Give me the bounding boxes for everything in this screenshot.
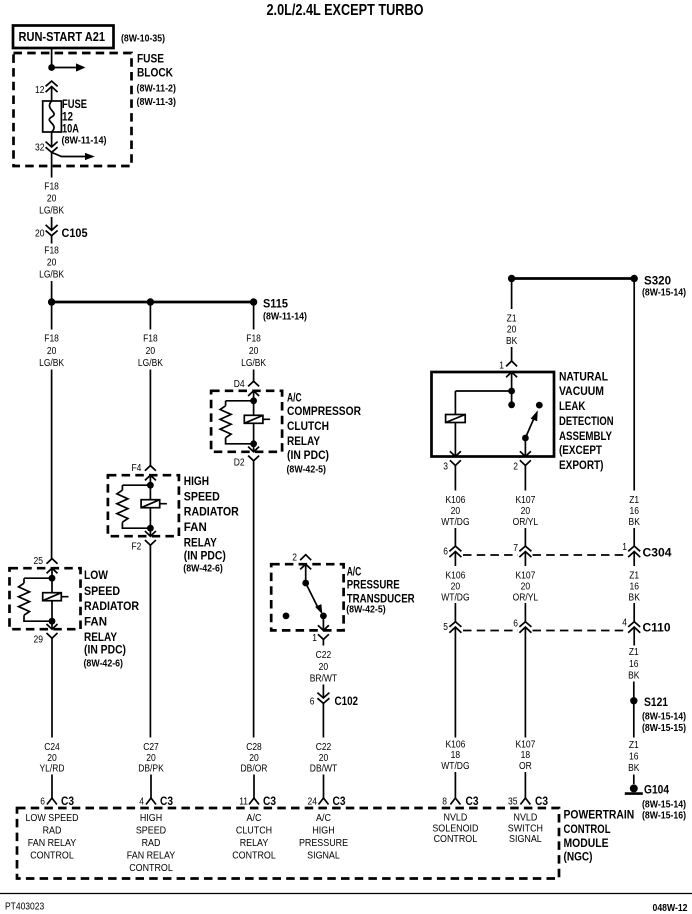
- svg-text:(NGC): (NGC): [564, 849, 593, 863]
- wire K107: [524, 466, 526, 491]
- svg-text:BLOCK: BLOCK: [137, 66, 173, 80]
- svg-text:Z1: Z1: [629, 570, 639, 581]
- svg-text:20: 20: [319, 662, 329, 673]
- svg-text:16: 16: [629, 506, 639, 517]
- ground G104: [630, 784, 638, 792]
- svg-text:A/C: A/C: [287, 390, 302, 404]
- relay K (A/C compressor clutch) pin D4 entry connector: [248, 381, 259, 396]
- wire: [149, 508, 151, 529]
- junction S115: [250, 298, 257, 305]
- node RUN-START A21 feed box: [13, 26, 114, 49]
- node switch contact: [536, 402, 543, 409]
- svg-text:Z1: Z1: [507, 314, 517, 325]
- fuse block enclosure (dashed): [14, 53, 132, 166]
- svg-text:16: 16: [629, 659, 639, 670]
- wire F18 column 2: [149, 302, 151, 330]
- svg-text:(8W-15-14): (8W-15-14): [642, 800, 686, 811]
- svg-text:SPEED: SPEED: [84, 584, 120, 598]
- svg-text:16: 16: [629, 581, 639, 592]
- relay K (low speed radiator fan) pin 29 exit connector: [47, 624, 58, 638]
- junction switch contact (closed): [320, 613, 327, 620]
- relay K (A/C compressor clutch) resistor branch wire: [226, 401, 254, 444]
- svg-text:6: 6: [40, 797, 45, 808]
- svg-text:RELAY: RELAY: [184, 535, 217, 549]
- svg-text:C3: C3: [263, 794, 276, 808]
- svg-text:6: 6: [513, 619, 518, 630]
- wire C24: [51, 638, 53, 737]
- svg-text:(8W-42-6): (8W-42-6): [183, 564, 223, 575]
- wire: [524, 438, 526, 457]
- svg-text:K106: K106: [445, 740, 465, 751]
- svg-text:PRESSURE: PRESSURE: [347, 578, 400, 592]
- svg-text:2.0L/2.4L EXCEPT TURBO: 2.0L/2.4L EXCEPT TURBO: [267, 2, 424, 19]
- svg-text:CLUTCH: CLUTCH: [287, 419, 329, 433]
- svg-text:S115: S115: [263, 297, 288, 311]
- svg-text:1: 1: [622, 542, 627, 553]
- wire: [253, 423, 255, 444]
- svg-text:POWERTRAIN: POWERTRAIN: [564, 808, 635, 822]
- svg-text:F18: F18: [44, 245, 59, 256]
- svg-text:C22: C22: [316, 742, 332, 753]
- wire: [253, 391, 255, 401]
- connector C304 harness dashes: [463, 554, 627, 556]
- svg-text:20: 20: [451, 581, 461, 592]
- svg-text:S320: S320: [644, 274, 671, 288]
- svg-text:RADIATOR: RADIATOR: [184, 505, 239, 519]
- svg-text:F18: F18: [246, 334, 261, 345]
- connector pin 12 (fuse block): [46, 81, 58, 92]
- svg-text:2: 2: [513, 462, 518, 473]
- svg-text:(IN PDC): (IN PDC): [84, 643, 126, 657]
- wire: [524, 772, 526, 798]
- wire: [149, 475, 151, 485]
- svg-text:TRANSDUCER: TRANSDUCER: [347, 591, 415, 605]
- svg-text:C27: C27: [143, 742, 159, 753]
- wire: [253, 775, 255, 799]
- svg-text:20: 20: [249, 346, 259, 357]
- svg-text:LG/BK: LG/BK: [241, 358, 266, 369]
- svg-text:F4: F4: [132, 463, 142, 474]
- svg-text:WT/DG: WT/DG: [441, 761, 469, 772]
- svg-text:16: 16: [629, 752, 639, 763]
- arrow feed to other circuits: [52, 152, 86, 156]
- node switch contact (open): [283, 613, 290, 620]
- svg-text:35: 35: [508, 797, 518, 808]
- wire: [150, 775, 152, 799]
- svg-text:32: 32: [35, 143, 45, 154]
- NVLD pin 1 entry connector: [506, 361, 517, 377]
- connector C304 pin 7: [519, 546, 531, 557]
- svg-text:HIGH: HIGH: [184, 474, 209, 488]
- svg-text:SIGNAL: SIGNAL: [509, 833, 542, 845]
- svg-text:(8W-15-14): (8W-15-14): [642, 288, 686, 299]
- svg-text:K106: K106: [445, 570, 465, 581]
- svg-text:LG/BK: LG/BK: [138, 358, 163, 369]
- wire: [633, 775, 635, 785]
- svg-text:G104: G104: [644, 783, 669, 797]
- wire: [323, 775, 325, 799]
- svg-text:(EXCEPT: (EXCEPT: [559, 443, 603, 457]
- wire: [51, 568, 53, 578]
- svg-text:D4: D4: [234, 379, 245, 390]
- svg-text:6: 6: [310, 697, 315, 708]
- relay K (low speed radiator fan) enclosure (dashed): [10, 568, 81, 629]
- svg-text:20: 20: [521, 581, 531, 592]
- wire: [322, 685, 324, 699]
- connector C105: [46, 225, 58, 236]
- wire K106: [454, 627, 456, 737]
- junction: [48, 298, 55, 305]
- wire F18: [51, 152, 53, 177]
- svg-text:BK: BK: [628, 763, 640, 774]
- svg-text:20: 20: [47, 258, 57, 269]
- wire C28: [253, 461, 255, 738]
- wire: [253, 401, 255, 416]
- svg-text:PT403023: PT403023: [5, 902, 45, 913]
- svg-text:18: 18: [521, 750, 531, 761]
- wire: [149, 485, 151, 500]
- svg-text:C22: C22: [316, 650, 332, 661]
- svg-text:RUN-START A21: RUN-START A21: [19, 29, 106, 44]
- svg-text:HIGH: HIGH: [140, 812, 162, 824]
- svg-text:LG/BK: LG/BK: [39, 205, 64, 216]
- svg-text:C3: C3: [61, 794, 74, 808]
- svg-text:ASSEMBLY: ASSEMBLY: [559, 429, 612, 443]
- svg-text:RAD: RAD: [43, 825, 62, 837]
- svg-text:OR: OR: [519, 761, 532, 772]
- junction: [250, 440, 257, 447]
- svg-text:SPEED: SPEED: [136, 825, 167, 837]
- svg-text:BK: BK: [629, 517, 641, 528]
- svg-text:SPEED: SPEED: [184, 490, 220, 504]
- wire C22: [322, 703, 324, 737]
- wire: [149, 528, 151, 536]
- svg-text:K107: K107: [515, 495, 535, 506]
- svg-text:4: 4: [139, 797, 144, 808]
- relay K (A/C compressor clutch) pin D2 exit connector: [248, 447, 259, 461]
- NVLD switch arm with arrow: [525, 418, 534, 439]
- connector C102: [317, 693, 329, 704]
- svg-text:RELAY: RELAY: [287, 434, 320, 448]
- relay K (high speed radiator fan) coil: [141, 500, 167, 508]
- svg-text:24: 24: [308, 797, 318, 808]
- wire: [305, 564, 307, 583]
- relay K (high speed radiator fan) enclosure (dashed): [108, 475, 179, 536]
- relay K (low speed radiator fan) resistor: [19, 583, 30, 615]
- splice S121: [630, 697, 637, 704]
- wire: [51, 621, 53, 629]
- svg-text:20: 20: [507, 325, 517, 336]
- svg-text:S121: S121: [644, 695, 668, 709]
- svg-text:BK: BK: [628, 671, 640, 682]
- wire C27: [149, 545, 151, 737]
- wire: [454, 423, 456, 457]
- svg-text:C110: C110: [643, 621, 671, 635]
- wire: [524, 528, 526, 546]
- connector pin 32 (fuse block): [46, 142, 58, 153]
- PCM pin 8 C3 connector: [450, 798, 460, 805]
- junction: [49, 618, 56, 625]
- wire: [51, 217, 53, 230]
- connector C110 pin 6: [519, 622, 531, 633]
- connector C110 pin 4: [628, 622, 640, 633]
- svg-text:20: 20: [451, 506, 461, 517]
- wire: [149, 370, 151, 466]
- module PCM enclosure (dashed): [17, 808, 559, 879]
- transducer pin 1 exit connector: [318, 625, 329, 639]
- relay K (high speed radiator fan) resistor: [117, 490, 128, 522]
- svg-text:6: 6: [443, 547, 448, 558]
- svg-text:CONTROL: CONTROL: [232, 849, 276, 861]
- svg-text:LG/BK: LG/BK: [39, 270, 64, 281]
- wire: [524, 603, 526, 622]
- svg-text:(8W-15-16): (8W-15-16): [642, 811, 686, 822]
- junction S320: [631, 275, 638, 282]
- junction: [49, 575, 56, 582]
- svg-text:(8W-11-14): (8W-11-14): [62, 136, 107, 147]
- svg-text:20: 20: [146, 753, 156, 764]
- svg-text:2: 2: [292, 553, 297, 564]
- fuse 12 10A: [43, 101, 62, 132]
- svg-text:A/C: A/C: [247, 812, 262, 824]
- wire: [51, 281, 53, 300]
- relay K (high speed radiator fan) pin F2 exit connector: [145, 531, 156, 545]
- bottom rule: [0, 893, 692, 895]
- svg-text:NATURAL: NATURAL: [559, 369, 608, 383]
- svg-text:A/C: A/C: [347, 565, 362, 579]
- wire Z1: [633, 552, 635, 567]
- svg-text:F18: F18: [143, 334, 158, 345]
- connector C110 pin 5: [449, 622, 461, 633]
- svg-text:FAN: FAN: [184, 520, 207, 534]
- relay K (high speed radiator fan) resistor branch wire: [122, 485, 150, 528]
- svg-text:D2: D2: [234, 457, 245, 468]
- svg-text:LG/BK: LG/BK: [39, 358, 64, 369]
- wire F18 column 3: [253, 302, 255, 330]
- NVLD pin 2 exit connector: [520, 451, 531, 465]
- svg-text:(8W-42-6): (8W-42-6): [84, 659, 124, 670]
- PCM pin 6 C3 connector: [47, 798, 57, 805]
- svg-text:WT/DG: WT/DG: [441, 593, 469, 604]
- svg-text:5: 5: [443, 622, 448, 633]
- junction: [147, 525, 154, 532]
- svg-text:(8W-11-14): (8W-11-14): [263, 312, 307, 323]
- PCM pin 11 C3 connector: [249, 798, 259, 805]
- svg-text:DB/PK: DB/PK: [138, 764, 164, 775]
- junction: [250, 397, 257, 404]
- wire: [51, 132, 53, 147]
- wire: [454, 772, 456, 798]
- wire: [51, 370, 53, 559]
- svg-text:K107: K107: [515, 570, 535, 581]
- wire: [51, 87, 53, 102]
- svg-text:DB/WT: DB/WT: [310, 764, 337, 775]
- svg-text:YL/RD: YL/RD: [40, 764, 65, 775]
- svg-text:25: 25: [34, 556, 44, 567]
- PCM pin 4 C3 connector: [146, 798, 156, 805]
- NVLD solenoid coil: [446, 415, 466, 423]
- svg-text:(IN PDC): (IN PDC): [287, 448, 329, 462]
- svg-text:C102: C102: [335, 694, 359, 708]
- wire switch stub: [511, 391, 513, 405]
- svg-text:DB/OR: DB/OR: [241, 764, 268, 775]
- svg-text:C3: C3: [160, 794, 173, 808]
- wire Z1 right column: [633, 279, 635, 491]
- svg-text:Z1: Z1: [629, 740, 639, 751]
- wire: [633, 682, 635, 738]
- relay K (high speed radiator fan) pin F4 entry connector: [145, 466, 156, 481]
- wire: [511, 347, 513, 361]
- NVLD solenoid branch wire: [455, 391, 511, 415]
- svg-text:FAN: FAN: [84, 615, 107, 629]
- svg-text:FUSE: FUSE: [137, 52, 164, 66]
- svg-text:CONTROL: CONTROL: [434, 833, 478, 845]
- svg-text:CONTROL: CONTROL: [129, 862, 173, 874]
- junction: [508, 388, 515, 395]
- svg-text:(8W-42-5): (8W-42-5): [346, 605, 386, 616]
- svg-text:RAD: RAD: [142, 837, 161, 849]
- wire K106: [454, 466, 456, 491]
- svg-text:A/C: A/C: [316, 812, 331, 824]
- svg-text:K106: K106: [445, 495, 465, 506]
- svg-text:18: 18: [451, 750, 461, 761]
- svg-text:DETECTION: DETECTION: [559, 414, 614, 428]
- svg-text:LOW: LOW: [84, 568, 109, 582]
- svg-text:(IN PDC): (IN PDC): [184, 548, 226, 562]
- relay K (low speed radiator fan) pin 25 entry connector: [47, 559, 58, 574]
- svg-text:HIGH: HIGH: [312, 825, 334, 837]
- wire: [253, 370, 255, 382]
- svg-text:LEAK: LEAK: [559, 399, 586, 413]
- wire: [633, 528, 635, 546]
- svg-text:COMPRESSOR: COMPRESSOR: [287, 404, 361, 418]
- wire C22: [322, 639, 324, 645]
- connector C304 pin 1: [628, 546, 640, 557]
- junction switch common: [302, 580, 309, 587]
- svg-text:FAN RELAY: FAN RELAY: [28, 837, 76, 849]
- wire: [454, 603, 456, 622]
- svg-text:CONTROL: CONTROL: [564, 822, 611, 836]
- junction: [147, 482, 154, 489]
- svg-text:C304: C304: [643, 546, 672, 560]
- svg-text:10A: 10A: [62, 122, 79, 136]
- svg-text:20: 20: [47, 346, 57, 357]
- svg-text:C3: C3: [333, 794, 346, 808]
- svg-text:C24: C24: [44, 742, 60, 753]
- svg-text:(8W-10-35): (8W-10-35): [121, 34, 165, 45]
- svg-text:8: 8: [442, 797, 447, 808]
- svg-text:(8W-15-14): (8W-15-14): [642, 712, 686, 723]
- svg-text:(8W-15-15): (8W-15-15): [642, 723, 686, 734]
- svg-text:Z1: Z1: [629, 647, 639, 658]
- svg-text:20: 20: [319, 753, 329, 764]
- svg-text:RADIATOR: RADIATOR: [84, 599, 139, 613]
- svg-text:20: 20: [47, 194, 57, 205]
- svg-text:F18: F18: [44, 334, 59, 345]
- svg-text:BK: BK: [506, 336, 518, 347]
- wire: [633, 603, 635, 622]
- wire: [51, 601, 53, 622]
- svg-text:CONTROL: CONTROL: [30, 849, 74, 861]
- wire F18 column 1: [51, 302, 53, 330]
- wire: [253, 444, 255, 452]
- svg-text:1: 1: [312, 633, 317, 644]
- svg-text:C3: C3: [466, 794, 479, 808]
- svg-text:(8W-11-3): (8W-11-3): [137, 97, 177, 108]
- svg-text:F2: F2: [132, 542, 142, 553]
- wire: [454, 528, 456, 546]
- wire: [51, 775, 53, 799]
- wire K106: [454, 552, 456, 567]
- svg-text:12: 12: [35, 85, 45, 96]
- NVLD pin 3 exit connector: [450, 451, 461, 465]
- junction: [508, 275, 515, 282]
- wire from RUN-START A21 into fuse block: [51, 48, 53, 68]
- junction switch pivot: [522, 435, 529, 442]
- svg-text:FAN RELAY: FAN RELAY: [127, 849, 175, 861]
- svg-text:OR/YL: OR/YL: [513, 517, 539, 528]
- wire F18: [51, 236, 53, 244]
- junction: [48, 64, 55, 71]
- splice S320 bus wire: [512, 277, 635, 280]
- wire: [51, 578, 53, 593]
- PCM pin 35 C3 connector: [520, 798, 530, 805]
- wire: [511, 372, 513, 391]
- relay K (A/C compressor clutch) enclosure (dashed): [211, 391, 282, 452]
- svg-text:LOW SPEED: LOW SPEED: [25, 812, 78, 824]
- svg-text:PRESSURE: PRESSURE: [299, 837, 348, 849]
- svg-text:048W-12: 048W-12: [653, 903, 688, 914]
- splice S115 bus wire: [52, 301, 254, 304]
- svg-text:11: 11: [239, 797, 248, 808]
- relay K (A/C compressor clutch) resistor: [220, 406, 231, 438]
- wire K107: [524, 552, 526, 567]
- svg-text:20: 20: [249, 753, 259, 764]
- svg-text:WT/DG: WT/DG: [441, 517, 469, 528]
- svg-text:RELAY: RELAY: [240, 837, 269, 849]
- svg-text:29: 29: [34, 635, 44, 646]
- svg-text:BR/WT: BR/WT: [310, 674, 337, 685]
- connector C304 pin 6: [449, 546, 461, 557]
- svg-text:VACUUM: VACUUM: [559, 384, 604, 398]
- wire: [322, 616, 324, 631]
- switch wiper arm with arrow: [306, 583, 319, 609]
- svg-text:OR/YL: OR/YL: [513, 593, 539, 604]
- svg-text:7: 7: [513, 543, 518, 554]
- svg-text:SIGNAL: SIGNAL: [307, 849, 340, 861]
- wire Z1: [511, 279, 513, 310]
- svg-text:(8W-42-5): (8W-42-5): [287, 465, 327, 476]
- svg-text:MODULE: MODULE: [564, 836, 609, 850]
- svg-text:F18: F18: [44, 181, 59, 192]
- relay K (A/C compressor clutch) coil: [244, 415, 270, 423]
- arrow feed to other circuits: [52, 67, 77, 69]
- svg-text:20: 20: [47, 753, 57, 764]
- PCM pin 24 C3 connector: [319, 798, 329, 805]
- svg-text:3: 3: [443, 462, 448, 473]
- svg-text:20: 20: [146, 346, 156, 357]
- svg-text:CLUTCH: CLUTCH: [236, 825, 272, 837]
- connector C110 harness dashes: [463, 630, 627, 632]
- transducer B (A/C pressure) pin 2 entry connector: [300, 555, 311, 570]
- svg-text:1: 1: [499, 361, 504, 372]
- relay K (low speed radiator fan) resistor branch wire: [24, 578, 52, 621]
- svg-text:C28: C28: [246, 742, 262, 753]
- transducer B (A/C pressure) enclosure (dashed): [271, 564, 343, 630]
- svg-text:C3: C3: [535, 794, 548, 808]
- NVLD assembly enclosure: [432, 372, 555, 457]
- svg-text:4: 4: [622, 618, 627, 629]
